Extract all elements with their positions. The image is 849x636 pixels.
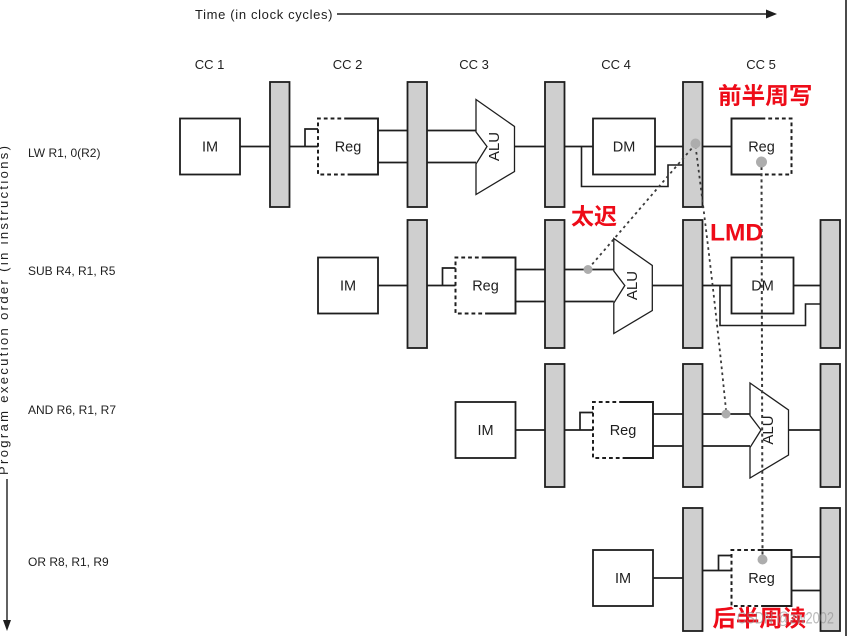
figure right border line [845,0,847,636]
svg-text:Reg: Reg [335,140,362,156]
row1 alu upper input wire [427,130,476,132]
row2 alu output wire [652,285,683,287]
row3 pipeline latch 2 [683,364,703,487]
row4 wire latch1 to Reg [703,570,732,572]
svg-text:AND R6, R1, R7: AND R6, R1, R7 [28,403,116,417]
row1 Reg box (write) [732,119,792,175]
row2 alu lower input wire [565,301,614,303]
row3 Reg box (read) [593,402,653,458]
row3 alu output wire [789,429,821,431]
svg-text:DM: DM [613,140,636,156]
row2 Reg box (read) [456,258,516,314]
row2 reg input hook [443,268,456,286]
svg-text:ALU: ALU [486,132,503,161]
row4 wire IM to latch1 [653,577,683,579]
svg-text:CC 5: CC 5 [746,57,776,72]
row1 wire IM to latch1 [240,146,270,148]
row4 reg input hook [719,556,732,571]
red annotation write-first-half [719,84,811,106]
row4 pipeline latch 2 [821,508,841,631]
svg-text:Time (in clock cycles): Time (in clock cycles) [195,7,333,22]
svg-text:IM: IM [477,423,493,439]
row1 wire DM to latch4 [655,146,683,148]
dotted curve LMD (latch4 to AND ALU input) [696,146,727,410]
row1 pipeline latch 3 [545,82,565,207]
row3 wire IM to latch1 [516,429,546,431]
svg-text:IM: IM [202,140,218,156]
node dot at row4 Reg top [758,555,768,565]
row3 wire latch1 to Reg [565,429,594,431]
row1 DM box [593,119,655,175]
row2 ALU [614,239,653,334]
row4 IM box [593,550,653,606]
svg-text:CC 2: CC 2 [333,57,363,72]
node dot at row2 ALU input [584,265,593,274]
node dot at row1 latch4 (LMD source) [691,139,701,149]
row2 DM bypass wire [720,286,821,326]
svg-text:Reg: Reg [472,279,499,295]
node dot at row3 ALU input [722,410,731,419]
svg-text:OR R8, R1, R9: OR R8, R1, R9 [28,555,109,569]
row1 reg input hook [305,129,318,147]
svg-text:ALU: ALU [624,271,641,300]
row2 reg upper output wire [516,269,546,271]
svg-text:Program execution order (in in: Program execution order (in instructions… [0,146,11,475]
node dot in row1 write Reg [756,157,767,168]
row4 reg lower output wire [792,590,821,592]
row1 wire latch4 to Reg [703,146,732,148]
row1 Reg box (read) [318,119,378,175]
row3 reg input hook [580,413,593,431]
row1 wire latch3 to DM [565,146,594,148]
row1 wire latch1 to Reg [290,146,319,148]
row2 pipeline latch 4 [821,220,841,348]
row1 pipeline latch 1 [270,82,290,207]
program order axis arrow [3,479,11,631]
row3 ALU [750,383,789,478]
svg-text:SUB R4, R1, R5: SUB R4, R1, R5 [28,264,116,278]
row3 reg lower output wire [653,445,683,447]
red annotation read-second-half [713,607,806,629]
row2 wire IM to latch1 [378,285,408,287]
row3 pipeline latch 3 [821,364,841,487]
row3 reg upper output wire [653,413,683,415]
row1 reg lower output wire [378,162,408,164]
svg-text:CC 3: CC 3 [459,57,489,72]
svg-text:LW R1, 0(R2): LW R1, 0(R2) [28,146,100,160]
dotted line register write to OR read [762,167,763,555]
svg-text:LMD: LMD [710,220,763,247]
row4 pipeline latch 1 [683,508,703,631]
row2 pipeline latch 1 [408,220,428,348]
row2 wire latch3 to DM [703,285,732,287]
row4 reg upper output wire [792,556,821,558]
row2 DM box [732,258,794,314]
row1 pipeline latch 2 [408,82,428,207]
row3 alu upper input wire [703,413,751,415]
svg-text:IM: IM [615,571,631,587]
row2 pipeline latch 2 [545,220,565,348]
svg-text:IM: IM [340,279,356,295]
row2 wire latch1 to Reg [427,285,456,287]
row2 reg lower output wire [516,301,546,303]
red annotation too-late [572,205,617,227]
row1 ALU [476,100,515,195]
svg-text:CC 1: CC 1 [195,57,225,72]
row1 DM bypass wire [582,147,684,187]
svg-text:CSDN @zw2002: CSDN @zw2002 [737,610,834,628]
dotted line too-late (latch4 to SUB ALU input) [589,144,696,268]
row2 alu upper input wire [565,269,614,271]
row2 pipeline latch 3 [683,220,703,348]
svg-text:Reg: Reg [748,571,775,587]
row3 alu lower input wire [703,445,751,447]
time axis arrow [337,10,777,19]
row3 pipeline latch 1 [545,364,565,487]
svg-text:CC 4: CC 4 [601,57,631,72]
row1 IM box [180,119,240,175]
row3 IM box [456,402,516,458]
row1 reg upper output wire [378,130,408,132]
svg-text:Reg: Reg [610,423,637,439]
svg-text:Reg: Reg [748,140,775,156]
row2 IM box [318,258,378,314]
row1 pipeline latch 4 [683,82,703,207]
row1 alu output wire [515,146,546,148]
row1 alu lower input wire [427,162,476,164]
row4 Reg box (read) [732,550,792,606]
row2 wire DM to latch4 [794,285,821,287]
